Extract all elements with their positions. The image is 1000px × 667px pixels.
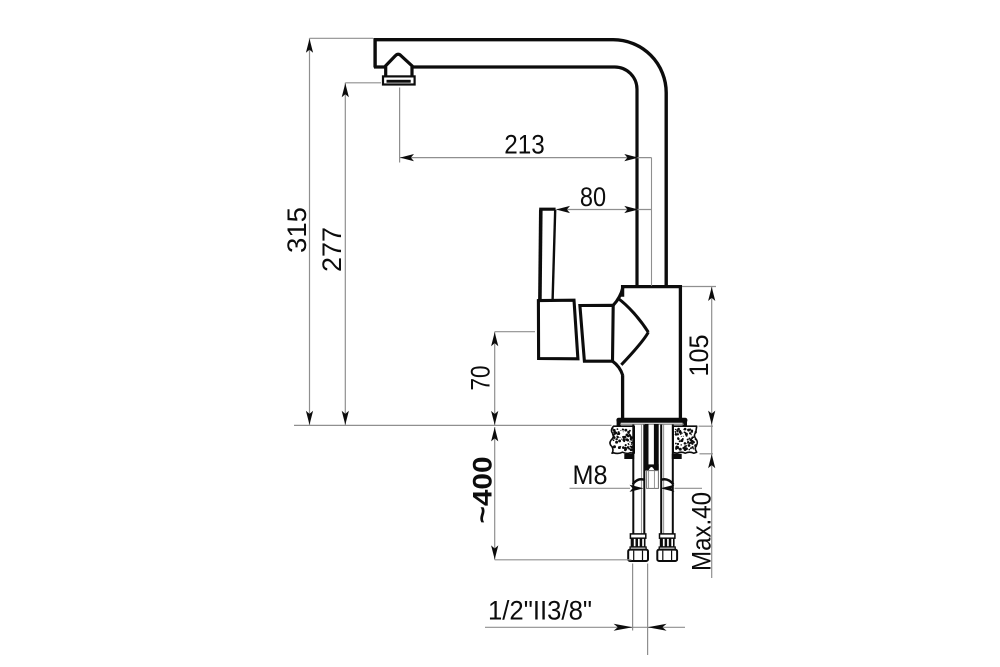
rod lower stud [647, 471, 659, 489]
extension line body top [682, 286, 716, 288]
body cone lower outline [613, 361, 623, 375]
label 1/2"II3/8" [488, 596, 592, 626]
dimension line 70 [491, 332, 498, 426]
dimension line connections [485, 624, 685, 631]
dimension line 315 [306, 38, 313, 425]
label 277 [317, 227, 347, 272]
extension line from aerator [399, 88, 401, 163]
svg-text:1/2"II3/8": 1/2"II3/8" [488, 596, 592, 626]
svg-text:Max.40: Max.40 [687, 492, 717, 571]
flexible hose right [661, 425, 673, 535]
svg-text:70: 70 [466, 366, 496, 391]
svg-text:M8: M8 [573, 460, 608, 490]
extension line fitting right / centerline [647, 564, 649, 656]
faucet body column [623, 287, 681, 419]
extension line countertop top right [699, 425, 714, 427]
M8 threaded rod [645, 424, 659, 465]
body cone upper outline [613, 288, 623, 306]
countertop surface extension line [294, 424, 612, 426]
pipe axis extension line [651, 158, 653, 286]
dimension line ~400 [491, 427, 498, 560]
hose fitting left [628, 534, 648, 561]
washer-nut right under countertop [672, 454, 682, 459]
handle cap [538, 300, 578, 359]
dimension line 80 [556, 206, 652, 213]
handle lever [539, 209, 555, 300]
svg-text:315: 315 [282, 207, 312, 253]
extension line countertop bottom right [700, 453, 714, 455]
label 105 [684, 335, 714, 377]
countertop section right (hatched) [673, 426, 697, 453]
wire spout bottom edge + inner bend + pipe left edge [374, 67, 637, 287]
hose break mark right [661, 479, 674, 484]
dimension line 277 [342, 83, 349, 425]
hose break mark left [633, 479, 645, 484]
wire spout top edge + outer bend + pipe right edge [374, 40, 667, 287]
svg-text:~400: ~400 [468, 457, 498, 524]
body cone beak upper curve [617, 298, 648, 332]
svg-text:105: 105 [684, 335, 714, 377]
handle collar [580, 305, 613, 361]
dimension line 105 and Max.40 [708, 287, 715, 579]
svg-text:277: 277 [317, 227, 347, 272]
washer-nut left under countertop [624, 454, 634, 459]
extension line handle bottom [495, 331, 535, 333]
label ~400 [468, 457, 498, 524]
body cone beak lower curve [621, 332, 648, 365]
extension line hose end [495, 559, 632, 561]
extension line aerator bottom [345, 82, 381, 84]
label M8 [573, 460, 608, 490]
aerator skirt [383, 76, 415, 84]
aerator outlet pentagon [386, 54, 412, 77]
label 315 [282, 207, 312, 253]
countertop section left (hatched) [610, 426, 634, 453]
label 213 [504, 130, 545, 160]
dimension M8 [570, 485, 703, 492]
dimension line 213 [400, 154, 652, 161]
svg-text:213: 213 [504, 130, 545, 160]
label 80 [580, 182, 606, 212]
label 70 [466, 366, 496, 391]
extension line spout top [310, 37, 374, 39]
hose fitting right [657, 534, 677, 561]
label Max.40 [687, 492, 717, 571]
rod nut [645, 464, 659, 470]
wire spout left end edge [373, 38, 376, 67]
extension line fitting left [632, 564, 634, 631]
svg-text:80: 80 [580, 182, 606, 212]
base plate [616, 418, 687, 428]
flexible hose left [633, 425, 644, 535]
